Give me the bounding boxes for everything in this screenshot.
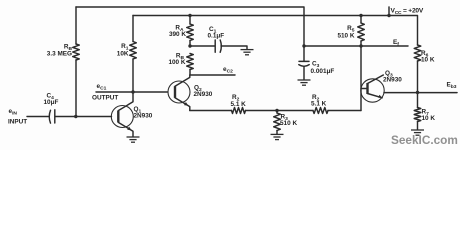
svg-text:10 K: 10 K [422,115,436,122]
svg-text:510 K: 510 K [280,120,297,127]
svg-text:10 K: 10 K [421,57,435,64]
svg-text:eC1: eC1 [97,83,107,92]
svg-text:5.1 K: 5.1 K [311,101,327,108]
svg-text:390 K: 390 K [169,31,186,38]
svg-text:SeekIC.com: SeekIC.com [391,133,458,147]
svg-text:Eb3: Eb3 [447,82,457,91]
svg-text:eC2: eC2 [223,66,233,75]
svg-text:100 K: 100 K [168,59,185,66]
svg-text:eIN: eIN [9,108,18,117]
svg-text:OUTPUT: OUTPUT [92,95,118,102]
svg-text:10μF: 10μF [44,99,59,106]
svg-text:2N930: 2N930 [134,113,153,120]
svg-text:INPUT: INPUT [8,119,27,126]
svg-text:0.1μF: 0.1μF [208,33,225,40]
svg-text:510 K: 510 K [337,33,354,40]
svg-text:2N930: 2N930 [194,91,213,98]
svg-text:2N930: 2N930 [383,77,402,84]
svg-text:3.3 MEG: 3.3 MEG [47,51,72,58]
svg-text:10K: 10K [117,51,129,58]
svg-text:0.001μF: 0.001μF [311,68,335,75]
svg-text:5.1 K: 5.1 K [231,101,247,108]
